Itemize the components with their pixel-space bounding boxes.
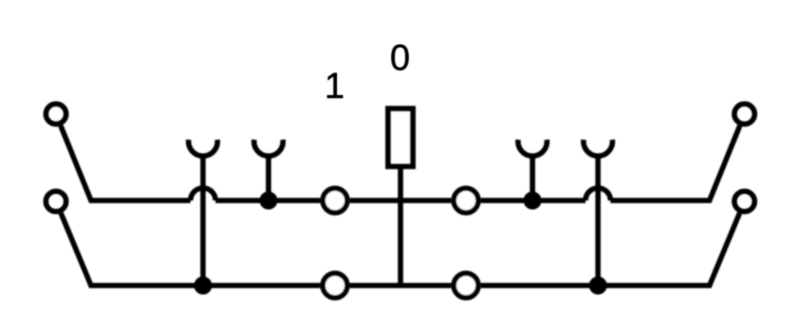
contact socket cup, right outer <box>583 140 612 156</box>
wire: upper bus between left hop and left open circle <box>216 198 321 203</box>
terminal circle, mid-right <box>734 191 754 211</box>
contact socket cup, right inner <box>518 140 547 156</box>
wire: actuator stem from rectangle down to lower bus <box>398 167 403 286</box>
junction dot: left inner stem on upper bus <box>260 192 278 210</box>
junction dot: right outer stem on lower bus <box>589 277 607 295</box>
terminal circle, mid-left <box>46 191 66 211</box>
wire: upper bus between left open circle and right open circle (crosses actuator stem) <box>350 198 452 203</box>
wire: right outer contact stem (through hop, down to lower bus) <box>595 155 600 286</box>
wire: left inner contact stem down to upper bus <box>266 155 271 201</box>
open-circle contact on lower bus, right <box>454 273 478 297</box>
junction dot: right inner stem on upper bus <box>524 192 542 210</box>
wire: upper bus between right open circle and right hop <box>481 198 586 203</box>
open-circle contact on upper bus, right <box>454 188 478 212</box>
junction dot: left outer stem on lower bus <box>194 277 212 295</box>
contact socket cup, left inner <box>254 140 283 156</box>
wire: mid-left terminal lead into lower bus, left segment <box>61 213 320 285</box>
wire: lower bus right segment into mid-right terminal lead <box>481 213 740 285</box>
contact socket cup, left outer <box>189 140 218 156</box>
svg-text:1: 1 <box>324 65 344 106</box>
terminal circle, top-right <box>734 104 754 124</box>
open-circle contact on upper bus, left <box>323 188 347 212</box>
wire hop: upper bus jumps over right outer contact stem <box>586 188 611 201</box>
terminal circle, top-left <box>46 104 66 124</box>
wire: left outer contact stem (through hop, down to lower bus) <box>200 155 205 286</box>
wire: upper bus right segment into top-right terminal lead <box>611 126 740 201</box>
wire hop: upper bus jumps over left outer contact stem <box>191 188 216 201</box>
wire: right inner contact stem down to upper bus <box>530 155 535 201</box>
open-circle contact on lower bus, left <box>323 273 347 297</box>
svg-text:0: 0 <box>390 37 410 78</box>
wire: top-left terminal lead into upper bus, left segment <box>61 126 191 201</box>
wire: lower bus between the two open circles (actuator stem tees in) <box>350 283 452 288</box>
actuator rectangle (position 0 driver) <box>388 109 413 167</box>
